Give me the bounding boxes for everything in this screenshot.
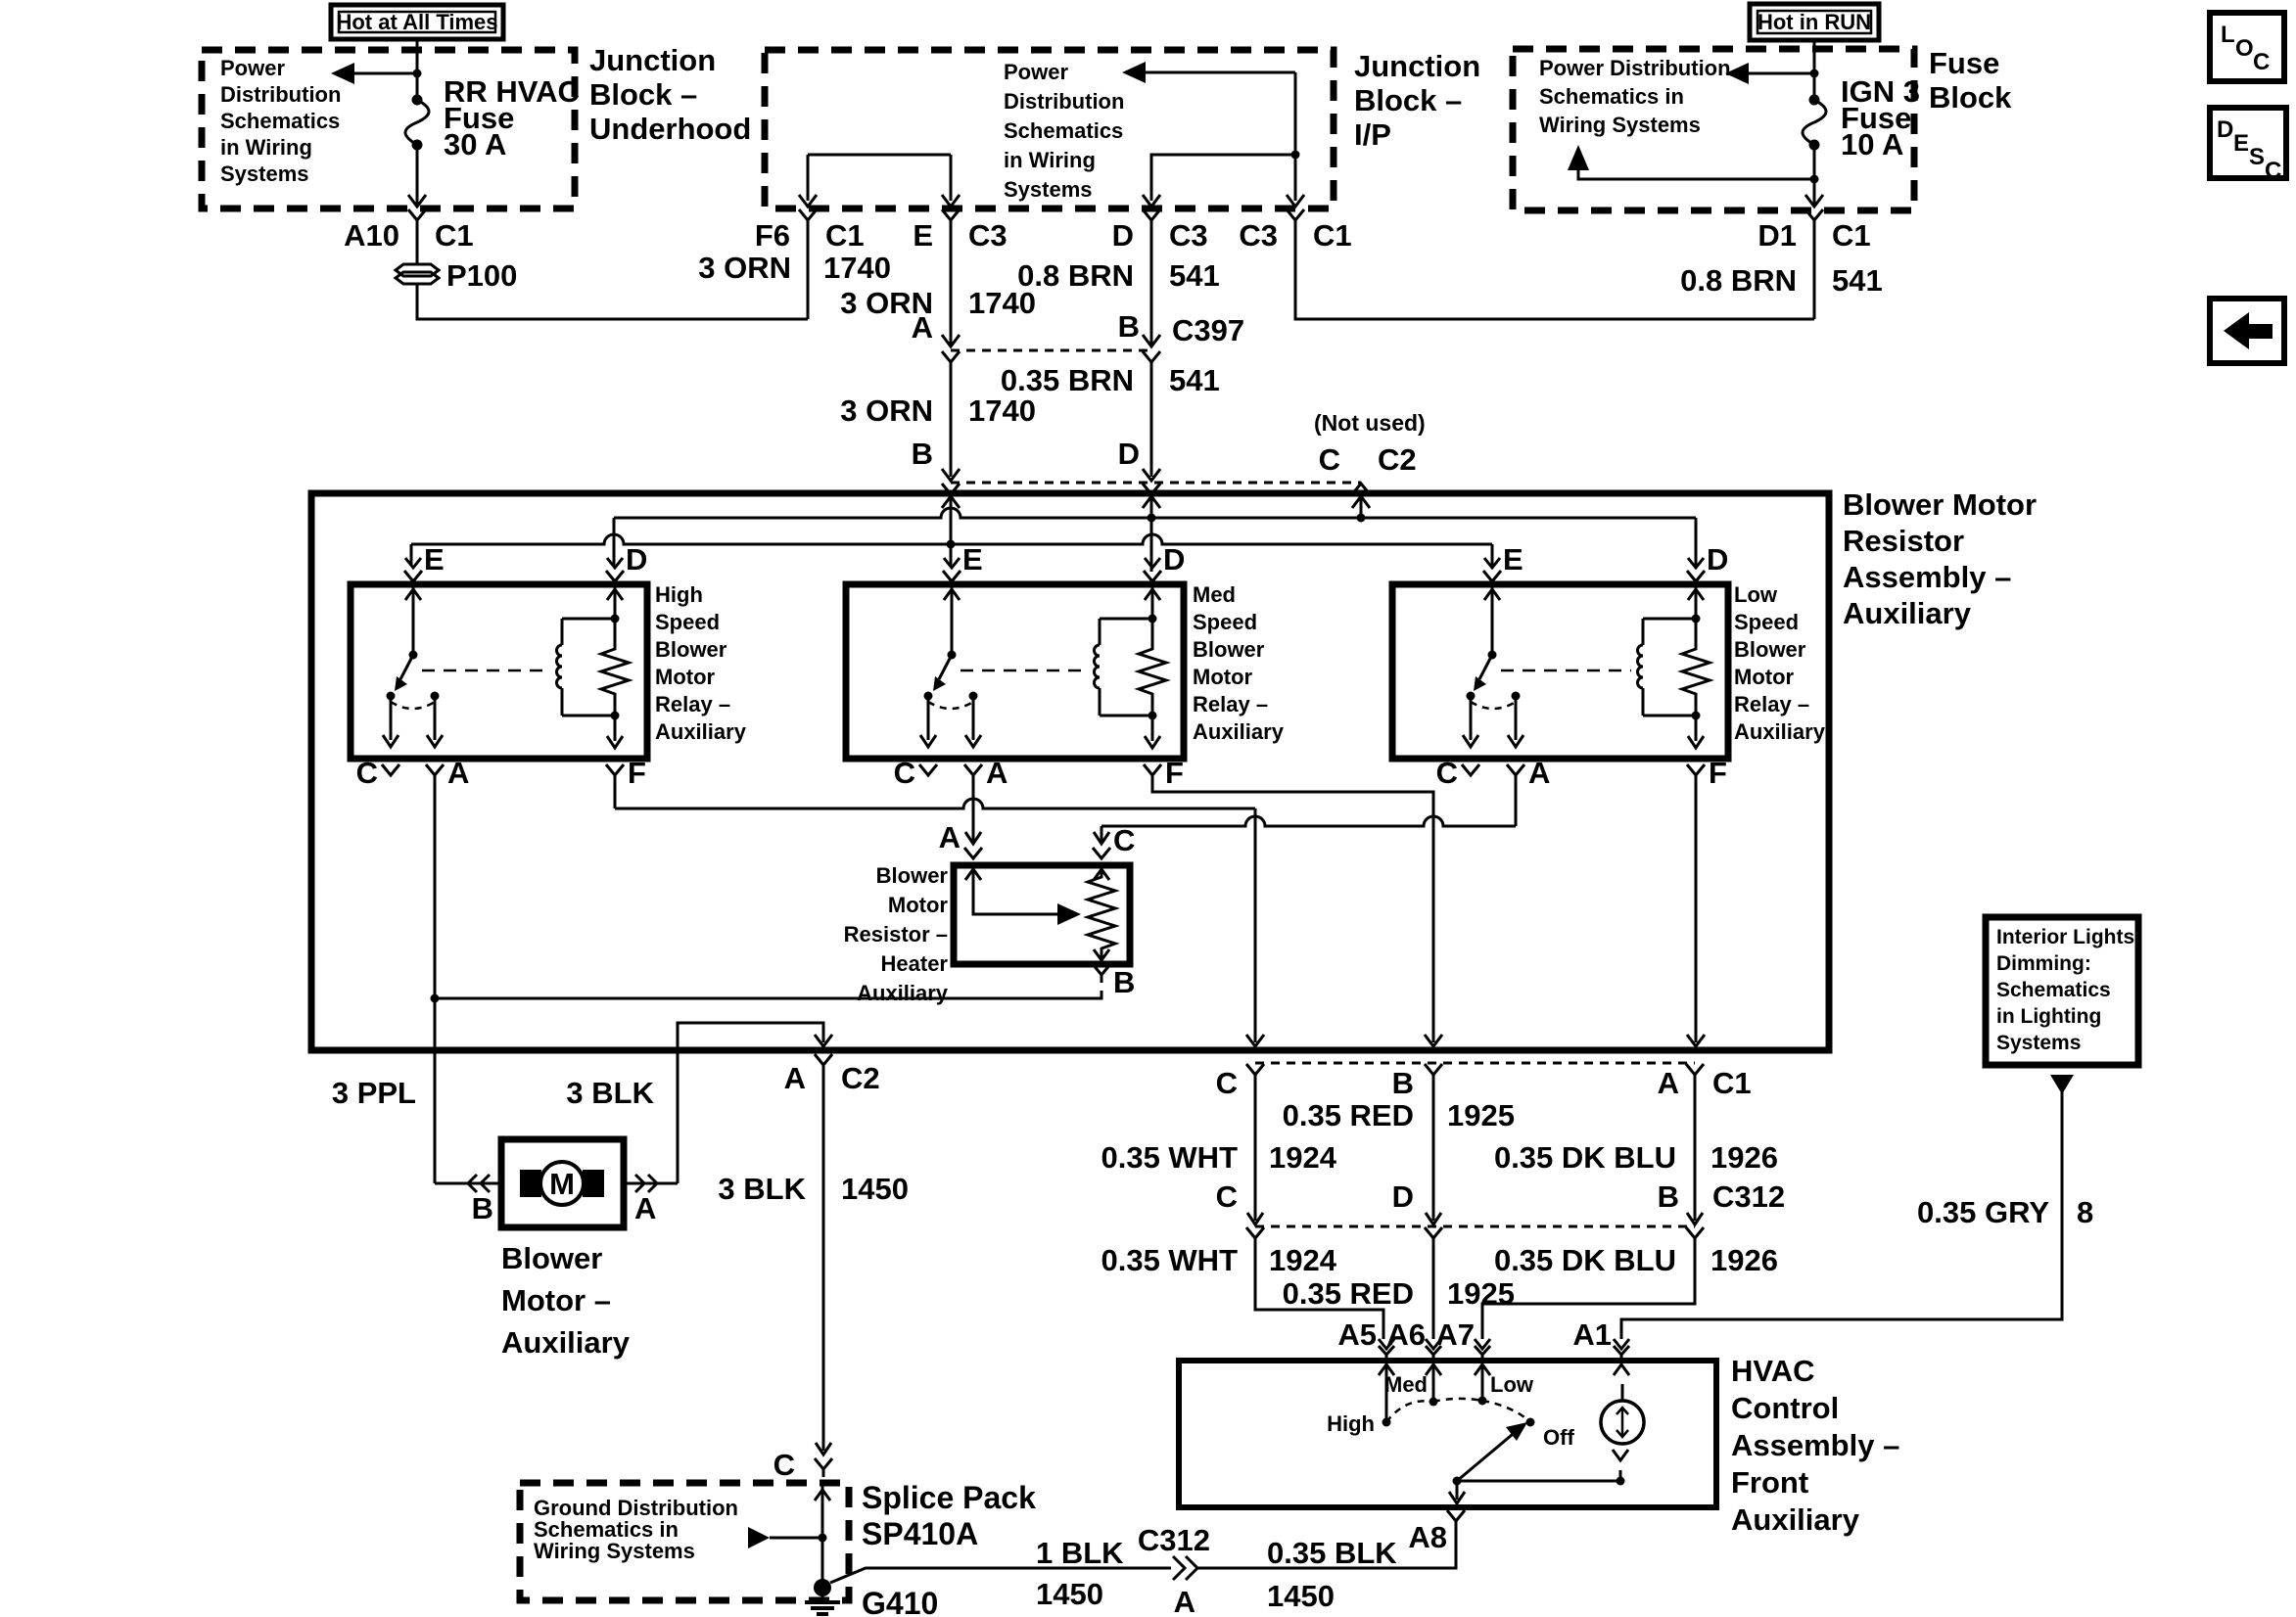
svg-text:Auxiliary: Auxiliary: [1734, 719, 1826, 744]
svg-text:1925: 1925: [1447, 1098, 1515, 1132]
svg-text:Motor –: Motor –: [501, 1283, 611, 1317]
svg-text:Relay –: Relay –: [1193, 692, 1268, 716]
relay switch common pivot: [1488, 651, 1497, 660]
svg-text:A10: A10: [344, 218, 399, 253]
wire: E bus right leg to relay 3: [1491, 544, 1494, 566]
nav box DESC: [2210, 108, 2286, 178]
wire: 3 ORN 1740 from C397 A to resistor assembly B: [950, 368, 953, 477]
heater resistor wiper arrow: [965, 869, 981, 880]
svg-text:Relay –: Relay –: [1734, 692, 1809, 716]
svg-text:F: F: [1709, 756, 1727, 790]
component box: Blower Motor Resistor Assembly - Auxiliary: [311, 493, 1829, 1050]
connector C1 pin F6: [799, 209, 817, 220]
svg-text:D: D: [2217, 116, 2233, 143]
fuse IGN 3 10 A: [1809, 95, 1820, 106]
svg-text:541: 541: [1169, 363, 1220, 397]
svg-text:C: C: [1319, 442, 1340, 477]
svg-text:E: E: [2233, 130, 2249, 157]
relay switch armature: [1479, 655, 1492, 679]
svg-text:C1: C1: [1313, 218, 1352, 253]
svg-text:Speed: Speed: [655, 610, 720, 634]
wire: D bus left leg to relay 1: [613, 518, 616, 566]
wire: 0.35 BLK 1450 to HVAC A8: [1197, 1529, 1456, 1568]
wire: HVAC common to A8: [1456, 1481, 1459, 1500]
svg-text:A6: A6: [1386, 1317, 1426, 1352]
svg-text:0.35 WHT: 0.35 WHT: [1101, 1140, 1238, 1175]
svg-text:Block –: Block –: [1354, 83, 1462, 117]
relay contact A lead: [972, 696, 975, 740]
svg-text:B: B: [1118, 309, 1140, 344]
svg-text:Power Distribution: Power Distribution: [1539, 56, 1731, 80]
relay resistor (parallel with coil): [1682, 619, 1710, 716]
relay coil actuation dashed link: [422, 670, 550, 672]
svg-text:A: A: [447, 756, 469, 790]
blower motor armature circle: [540, 1162, 584, 1205]
relay switch contact A: [1512, 692, 1521, 701]
relay switch alternate position arc (dashed): [928, 702, 973, 709]
svg-text:C2: C2: [841, 1061, 880, 1095]
node: C2 stub on D bus: [1357, 514, 1366, 523]
wire: arrow to power distribution schematics: [345, 72, 417, 75]
svg-text:Distribution: Distribution: [220, 82, 341, 107]
relay coil bottom node: [611, 712, 620, 720]
svg-text:Heater: Heater: [881, 951, 949, 976]
svg-text:0.35 RED: 0.35 RED: [1283, 1276, 1414, 1311]
relay connector F fork: [1144, 764, 1161, 775]
svg-text:in Wiring: in Wiring: [1004, 148, 1096, 172]
svg-text:C312: C312: [1138, 1523, 1210, 1557]
relay contact C lead: [390, 696, 393, 740]
svg-text:in Wiring: in Wiring: [220, 135, 312, 160]
wire: into splice pack: [821, 1485, 824, 1588]
svg-text:0.8 BRN: 0.8 BRN: [1680, 263, 1797, 298]
wire: B feed into assembly to relay bus: [942, 496, 960, 508]
wire: I/P internal branch to terminal D: [1151, 155, 1295, 201]
svg-text:C: C: [1113, 823, 1135, 857]
svg-text:0.35 BRN: 0.35 BRN: [1001, 363, 1134, 397]
relay coil: [1100, 618, 1152, 621]
svg-text:Low: Low: [1490, 1372, 1534, 1397]
svg-text:C3: C3: [1239, 218, 1278, 253]
svg-text:Underhood: Underhood: [589, 112, 751, 146]
node: heater resistor B tap on motor feed: [431, 994, 440, 1003]
relay contact C lead: [1470, 696, 1473, 740]
relay resistor (parallel with coil): [601, 619, 629, 716]
svg-text:A: A: [912, 310, 933, 345]
motor terminal B lead: [435, 1182, 501, 1185]
relay box: Low speed blower motor relay: [1392, 584, 1728, 759]
connector C312 row (dashed): [1255, 1225, 1695, 1228]
relay connector A fork: [1507, 764, 1524, 775]
wire: D bus right leg to relay 3: [1695, 518, 1698, 566]
connector C at splice pack: [815, 1458, 832, 1469]
svg-text:A7: A7: [1435, 1317, 1475, 1352]
relay coil: [562, 618, 615, 621]
svg-text:3 ORN: 3 ORN: [698, 251, 791, 285]
node: HVAC switch common: [1453, 1477, 1462, 1486]
connector C3 pin D: [1143, 209, 1160, 220]
wire: battery feed into RR HVAC fuse: [416, 39, 419, 100]
thermal limiter (circle): [1601, 1401, 1644, 1444]
relay terminal E: [944, 558, 960, 568]
node: D bus at relay 2: [1148, 514, 1156, 523]
fuse block dashed box: [1513, 49, 1914, 210]
svg-text:Systems: Systems: [220, 162, 309, 186]
svg-text:0.35 DK BLU: 0.35 DK BLU: [1494, 1140, 1676, 1175]
svg-text:Blower: Blower: [1734, 637, 1806, 662]
blower motor brushes: [520, 1170, 541, 1197]
relay contact A lead: [1515, 696, 1518, 740]
svg-text:A: A: [634, 1191, 656, 1225]
relay switch common pivot: [409, 651, 418, 660]
HVAC switch armature: [1457, 1430, 1518, 1481]
svg-text:C312: C312: [1712, 1179, 1785, 1214]
svg-text:C: C: [894, 756, 915, 790]
svg-text:A: A: [1174, 1585, 1195, 1617]
svg-text:Blower: Blower: [501, 1241, 602, 1275]
HVAC switch dashed travel arc: [1386, 1401, 1433, 1422]
wire: heater resistor B to motor feed: [435, 991, 1101, 998]
svg-text:Auxiliary: Auxiliary: [655, 719, 747, 744]
svg-text:Auxiliary: Auxiliary: [1193, 719, 1285, 744]
wire: relay D bus (0.35 BRN feed): [614, 508, 1696, 518]
svg-text:A: A: [1658, 1066, 1679, 1100]
motor terminal A lead: [624, 1182, 678, 1185]
relay connector F fork: [606, 764, 624, 775]
svg-text:Blower: Blower: [1193, 637, 1265, 662]
ground G410: [814, 1579, 831, 1596]
svg-text:1926: 1926: [1710, 1243, 1778, 1277]
relay contact A lead: [434, 696, 437, 740]
HVAC terminal A7: [1475, 1339, 1490, 1349]
relay terminal D: [607, 558, 623, 568]
relay box: High speed blower motor relay: [351, 584, 647, 759]
connector C2 row (dashed): [951, 482, 1361, 485]
svg-text:Auxiliary: Auxiliary: [501, 1325, 631, 1360]
svg-text:Hot in RUN: Hot in RUN: [1757, 10, 1871, 34]
connector C1 pin C3 (I/P right): [1287, 209, 1304, 220]
svg-text:1926: 1926: [1710, 1140, 1778, 1175]
HVAC terminal A5: [1379, 1339, 1394, 1349]
svg-text:Motor: Motor: [655, 665, 716, 689]
svg-text:E: E: [424, 542, 445, 577]
svg-text:Junction: Junction: [589, 43, 716, 77]
svg-text:541: 541: [1169, 258, 1220, 293]
svg-text:F: F: [1165, 756, 1184, 790]
node: junction to power distribution (fuse block): [1810, 69, 1819, 78]
relay coil actuation dashed link: [1501, 670, 1631, 672]
svg-text:C1: C1: [1712, 1066, 1752, 1100]
relay resistor (parallel with coil): [1139, 619, 1166, 716]
svg-text:B: B: [912, 437, 933, 471]
connector C3 pin E: [942, 209, 960, 220]
svg-text:Motor: Motor: [1734, 665, 1795, 689]
svg-text:A: A: [939, 820, 961, 855]
svg-text:0.35 RED: 0.35 RED: [1283, 1098, 1414, 1132]
relay switch alternate position arc (dashed): [391, 702, 435, 709]
relay coil actuation dashed link: [961, 670, 1088, 672]
svg-text:3 PPL: 3 PPL: [332, 1076, 416, 1110]
relay connector C (chevron, not used): [1462, 764, 1479, 775]
relay coil: [1643, 618, 1696, 621]
svg-text:Resistor –: Resistor –: [844, 922, 948, 947]
svg-text:D: D: [1163, 542, 1185, 577]
svg-text:Auxiliary: Auxiliary: [857, 981, 949, 1005]
wire: fuse output to connector C1 terminal A10: [416, 145, 419, 205]
svg-text:D: D: [1707, 542, 1728, 577]
svg-text:1924: 1924: [1269, 1243, 1337, 1277]
svg-text:1450: 1450: [1036, 1577, 1103, 1611]
svg-text:Blower: Blower: [876, 863, 949, 888]
svg-text:Wiring Systems: Wiring Systems: [1539, 113, 1701, 137]
wire: arrow up to wiring systems note: [1578, 168, 1814, 179]
relay connector C (chevron, not used): [919, 764, 937, 775]
flag: Hot at All Times: [331, 5, 503, 39]
svg-text:Block –: Block –: [589, 77, 697, 112]
relay switch alternate position arc (dashed): [1471, 702, 1516, 709]
connector C2 pin A at assembly: [815, 1054, 832, 1065]
relay switch armature: [939, 655, 952, 679]
wire: 0.8 BRN 541 from D to connector C397 B: [1150, 228, 1153, 345]
svg-text:A: A: [784, 1061, 806, 1095]
relay connector A fork: [964, 764, 982, 775]
connector C1 row (dashed): [1255, 1062, 1695, 1065]
svg-text:E: E: [1503, 542, 1523, 577]
svg-text:8: 8: [2077, 1195, 2093, 1229]
wire: relay E bus (3 ORN feed): [411, 534, 1492, 544]
connector C397 (in-line): [951, 349, 1151, 352]
HVAC terminal A6: [1426, 1339, 1441, 1349]
nav box LOC: [2210, 13, 2284, 81]
relay coil top node: [1148, 615, 1157, 624]
HVAC switch feed wires: [1385, 1361, 1388, 1422]
heater resistor terminal C fork: [1093, 848, 1110, 858]
wire: relay1 F control line to connector C1 pin C: [615, 799, 1255, 808]
heater resistor terminal A fork: [964, 848, 982, 858]
HVAC switch position Low: [1478, 1397, 1487, 1406]
svg-text:Speed: Speed: [1734, 610, 1799, 634]
svg-text:A: A: [1528, 756, 1550, 790]
wire: I/P block C1 feed with arrow to power distribution: [1136, 71, 1295, 74]
relay coil top node: [1692, 615, 1701, 624]
svg-text:Schematics: Schematics: [220, 109, 340, 133]
thermal limiter fork: [1613, 1450, 1628, 1460]
svg-text:1450: 1450: [841, 1172, 909, 1206]
svg-text:Control: Control: [1731, 1391, 1839, 1425]
relay coil top node: [611, 615, 620, 624]
svg-text:0.35 BLK: 0.35 BLK: [1267, 1536, 1397, 1570]
svg-text:A8: A8: [1408, 1520, 1447, 1554]
splice / pass-through P100: [416, 228, 419, 263]
svg-text:Assembly –: Assembly –: [1843, 560, 2011, 594]
svg-text:Med: Med: [1193, 582, 1236, 607]
relay connector A fork: [426, 764, 444, 775]
relay box: Med speed blower motor relay: [846, 584, 1184, 759]
svg-text:Hot at All Times: Hot at All Times: [336, 10, 497, 34]
svg-text:C: C: [2253, 49, 2270, 75]
junction block underhood dashed box: [202, 50, 575, 208]
svg-text:Interior Lights: Interior Lights: [1996, 926, 2134, 948]
svg-text:Auxiliary: Auxiliary: [1843, 596, 1972, 630]
svg-text:1 BLK: 1 BLK: [1036, 1536, 1124, 1570]
svg-text:Speed: Speed: [1193, 610, 1257, 634]
svg-text:Systems: Systems: [1996, 1032, 2081, 1054]
reference box: Interior Lights Dimming Schematics in Lighting Systems: [1986, 917, 2138, 1065]
svg-text:Med: Med: [1384, 1372, 1428, 1397]
svg-text:3 ORN: 3 ORN: [840, 393, 933, 428]
node: thermal limiter leg: [1617, 1477, 1625, 1486]
svg-text:1925: 1925: [1447, 1276, 1515, 1311]
wire: 3 ORN from P100 to junction block I/P F6: [417, 284, 808, 319]
svg-text:C3: C3: [1169, 218, 1208, 253]
svg-text:0.8 BRN: 0.8 BRN: [1017, 258, 1134, 293]
svg-text:SP410A: SP410A: [862, 1516, 978, 1551]
svg-text:1924: 1924: [1269, 1140, 1337, 1175]
svg-text:0.35 GRY: 0.35 GRY: [1917, 1195, 2049, 1229]
svg-text:B: B: [472, 1191, 493, 1225]
wire: 0.8 BRN 541 from fuse block to I/P block C1: [1813, 228, 1816, 319]
svg-text:C: C: [356, 756, 378, 790]
svg-text:Motor: Motor: [888, 893, 949, 917]
svg-text:10 A: 10 A: [1841, 127, 1903, 162]
svg-text:A5: A5: [1337, 1317, 1377, 1352]
relay switch contact A: [431, 692, 440, 701]
wire: relay2 F control line to connector C1 pin B: [1152, 783, 1433, 1042]
svg-text:30 A: 30 A: [444, 127, 506, 162]
svg-text:B: B: [1392, 1066, 1414, 1100]
svg-text:A: A: [986, 756, 1007, 790]
relay terminal D: [1688, 558, 1704, 568]
relay terminal E: [405, 558, 421, 568]
svg-text:1450: 1450: [1267, 1579, 1335, 1613]
wire: motor A to assembly connector C2 pin A (3 BLK): [678, 1023, 823, 1183]
wire: relay2 control through connector C1 pin B: [1425, 1064, 1442, 1075]
connector C312 pin A (in-line): [1173, 1556, 1185, 1580]
node: junction to power distribution: [413, 69, 422, 78]
junction block I/P dashed box: [765, 50, 1334, 208]
svg-text:F6: F6: [755, 218, 790, 253]
svg-text:Schematics: Schematics: [1004, 118, 1123, 143]
svg-text:F: F: [628, 756, 646, 790]
HVAC switch position Off: [1526, 1418, 1535, 1427]
wire: relay3 F control line to connector C1 pin A: [1695, 783, 1698, 1042]
svg-text:Wiring Systems: Wiring Systems: [534, 1539, 695, 1563]
svg-text:A1: A1: [1572, 1317, 1612, 1352]
wire: relay3 control through connector C1 pin A: [1686, 1064, 1704, 1075]
svg-text:Power: Power: [1004, 60, 1068, 84]
wire: 1 BLK 1450 ground lead to HVAC A8: [830, 1568, 1171, 1583]
svg-text:541: 541: [1832, 263, 1883, 298]
node: I/P C1 internal junction: [1291, 151, 1300, 160]
wire: 0.35 BRN 541 from C397 B to resistor assembly D: [1150, 368, 1153, 477]
component box: Blower Motor - Auxiliary: [501, 1139, 624, 1227]
svg-text:M: M: [549, 1167, 575, 1201]
svg-text:Relay –: Relay –: [655, 692, 730, 716]
svg-text:C: C: [1216, 1066, 1238, 1100]
relay switch contact C: [1467, 692, 1476, 701]
HVAC switch position High: [1382, 1418, 1391, 1427]
svg-text:Resistor: Resistor: [1843, 524, 1964, 558]
HVAC terminal A1: [1614, 1339, 1629, 1349]
svg-text:Front: Front: [1731, 1465, 1808, 1500]
wire: ignition feed into IGN 3 fuse: [1813, 40, 1816, 100]
connector C1 pin D1: [1805, 209, 1823, 220]
svg-text:C2: C2: [1378, 442, 1417, 477]
relay coil bottom node: [1148, 712, 1157, 720]
svg-text:C3: C3: [968, 218, 1007, 253]
connector C1 pin A10: [408, 209, 426, 220]
relay switch common pivot: [948, 651, 957, 660]
svg-text:0.35 DK BLU: 0.35 DK BLU: [1494, 1243, 1676, 1277]
svg-text:Off: Off: [1543, 1425, 1574, 1450]
relay terminal E: [1484, 558, 1500, 568]
node: splice SP410A: [819, 1534, 827, 1543]
fuse RR HVAC 30 A: [412, 95, 423, 106]
svg-text:D: D: [626, 542, 647, 577]
splice pack dashed box: [520, 1483, 849, 1600]
svg-text:E: E: [962, 542, 983, 577]
svg-text:Block: Block: [1929, 80, 2012, 115]
svg-text:C397: C397: [1172, 313, 1244, 347]
svg-text:Assembly –: Assembly –: [1731, 1428, 1899, 1462]
svg-text:C: C: [2265, 158, 2281, 184]
svg-text:G410: G410: [862, 1586, 938, 1617]
svg-text:Power: Power: [220, 56, 285, 80]
svg-text:D: D: [1112, 218, 1134, 253]
svg-text:(Not used): (Not used): [1314, 410, 1426, 436]
relay contact C lead: [927, 696, 930, 740]
wire: C2 pin C stub to bus: [1352, 496, 1370, 508]
svg-text:C1: C1: [1832, 218, 1871, 253]
svg-text:D: D: [1392, 1179, 1414, 1214]
svg-text:Blower Motor: Blower Motor: [1843, 487, 2037, 522]
svg-text:Dimming:: Dimming:: [1996, 952, 2091, 975]
svg-text:P100: P100: [446, 258, 517, 293]
wire: HVAC common to thermal limiter: [1457, 1480, 1620, 1483]
svg-text:I/P: I/P: [1354, 117, 1391, 152]
svg-text:L: L: [2221, 22, 2235, 48]
svg-text:Auxiliary: Auxiliary: [1731, 1502, 1860, 1537]
nav box back arrow: [2210, 299, 2284, 363]
svg-text:Schematics in: Schematics in: [1539, 84, 1684, 109]
HVAC switch position Med: [1429, 1398, 1438, 1407]
svg-text:Motor: Motor: [1193, 665, 1253, 689]
relay connector F fork: [1687, 764, 1705, 775]
svg-text:Schematics: Schematics: [1996, 979, 2111, 1001]
relay terminal D: [1145, 558, 1160, 568]
svg-text:B: B: [1658, 1179, 1679, 1214]
svg-text:D1: D1: [1757, 218, 1797, 253]
wire: 3 ORN 1740 from E to connector C397 A: [950, 228, 953, 345]
svg-text:0.35 WHT: 0.35 WHT: [1101, 1243, 1238, 1277]
svg-text:3 BLK: 3 BLK: [718, 1172, 806, 1206]
svg-text:E: E: [913, 218, 933, 253]
wire: 3 BLK 1450 to splice pack: [822, 1073, 825, 1451]
wire: relay3 A to heater resistor C: [1515, 783, 1518, 826]
node: junction to power distribution return arrow: [1810, 175, 1819, 184]
svg-text:High: High: [655, 582, 703, 607]
svg-text:C: C: [1216, 1179, 1238, 1214]
relay connector C (chevron, not used): [382, 764, 399, 775]
wire: relay1 control through connector C1 pin C: [1246, 1064, 1264, 1075]
relay coil bottom node: [1692, 712, 1701, 720]
node: E bus at relay 2: [947, 540, 956, 549]
flag: Hot in RUN: [1750, 4, 1879, 40]
wire: relay1 A to blower motor B (3 PPL): [434, 783, 437, 1183]
svg-text:High: High: [1327, 1411, 1375, 1436]
svg-text:C: C: [773, 1448, 795, 1482]
wire: I/P internal bus F6 to E: [808, 154, 951, 157]
